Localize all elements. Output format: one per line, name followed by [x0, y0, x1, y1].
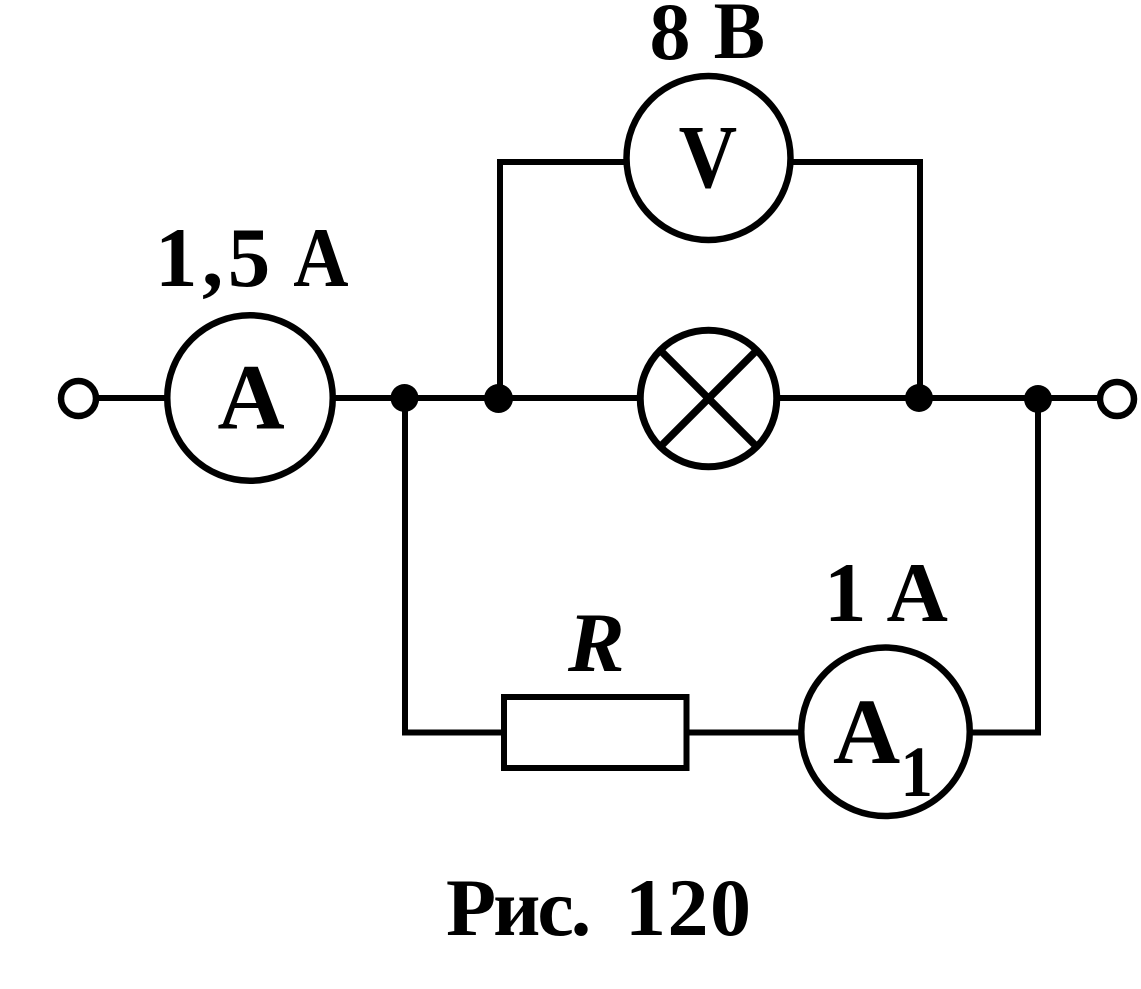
svg-text:А: А: [887, 546, 948, 640]
svg-text:1,5: 1,5: [155, 211, 275, 305]
svg-text:V: V: [679, 107, 737, 207]
svg-text:1: 1: [824, 546, 867, 640]
svg-text:А: А: [833, 681, 900, 784]
svg-text:R: R: [567, 596, 625, 690]
svg-text:120: 120: [625, 862, 753, 953]
svg-text:Рис.: Рис.: [446, 862, 588, 953]
svg-text:В: В: [714, 0, 765, 77]
svg-text:А: А: [293, 211, 348, 305]
svg-text:А: А: [218, 347, 285, 450]
svg-text:1: 1: [901, 732, 933, 812]
svg-text:8: 8: [650, 0, 691, 77]
